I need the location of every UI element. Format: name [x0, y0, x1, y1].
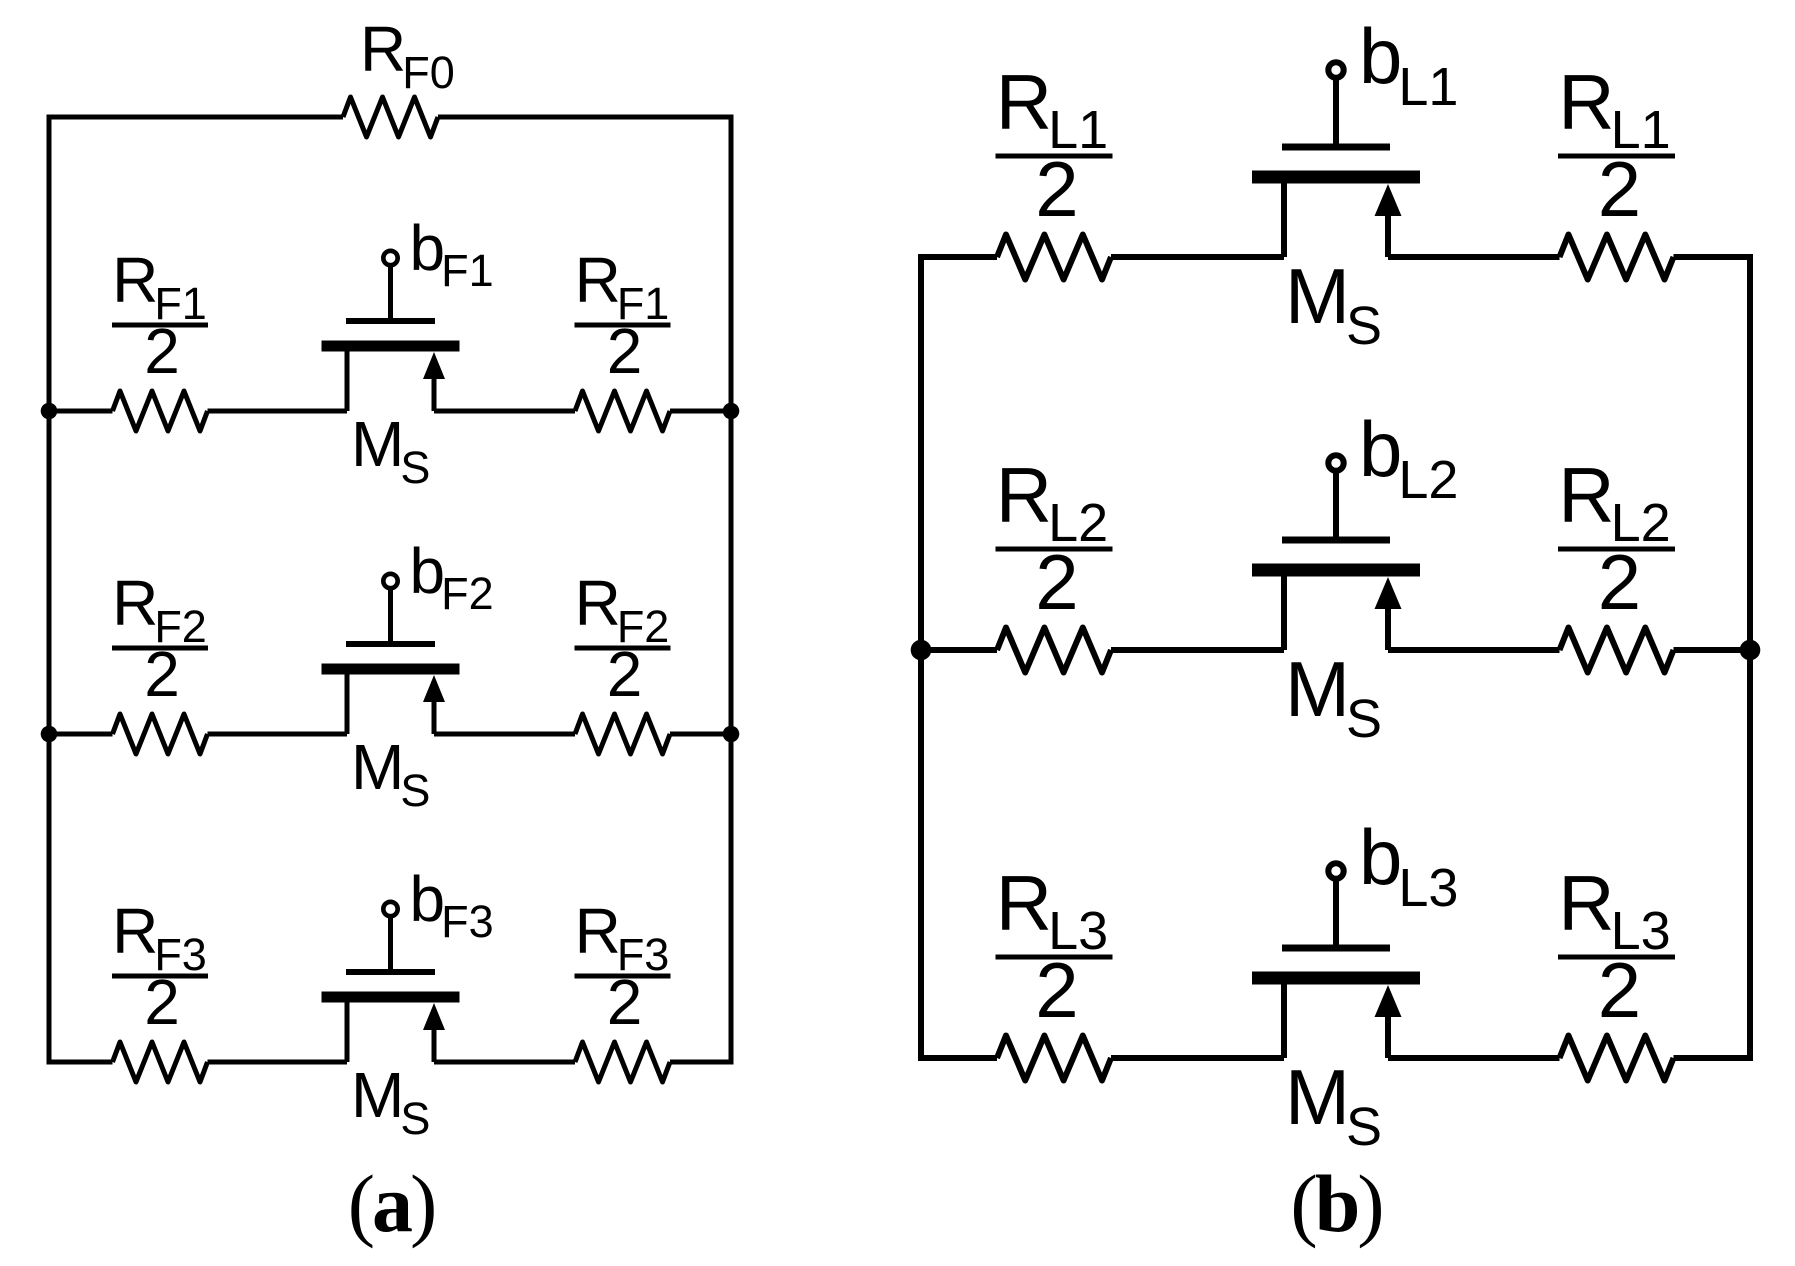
gate terminal b_L2 — [1328, 405, 1458, 540]
transistor M_S branch L1 — [1252, 147, 1420, 356]
resistor R_L1/2 right — [1558, 58, 1675, 280]
transistor M_S branch L3 — [1252, 948, 1420, 1157]
wire: branch L1 resistor-to-drain — [1111, 254, 1284, 260]
wire: branch L3 rail-to-resistor left — [921, 1055, 997, 1061]
wire: branch L1 rail-to-resistor left — [921, 254, 997, 260]
wire: branch F2 resistor-to-rail right — [670, 732, 731, 737]
resistor R_F0 — [343, 13, 455, 137]
wire: branch L3 resistor-to-drain — [1111, 1055, 1284, 1061]
transistor M_S branch F2 — [322, 644, 460, 816]
resistor R_F1/2 right — [575, 244, 671, 431]
transistor M_S branch F1 — [322, 321, 460, 493]
wire: branch F2 rail-to-resistor left — [49, 732, 113, 737]
wire: branch F3 source-to-resistor — [434, 1060, 575, 1065]
resistor R_L3/2 left — [996, 859, 1113, 1081]
node right junction F1 — [723, 403, 740, 420]
node left junction F2 — [41, 726, 58, 743]
transistor M_S branch F3 — [322, 972, 460, 1144]
wire: right rail (b) — [1747, 254, 1753, 1061]
wire: branch F1 rail-to-resistor left — [49, 409, 113, 414]
svg-text:2: 2 — [1598, 145, 1641, 233]
wire: branch L2 rail-to-resistor left — [921, 647, 997, 653]
wire: right rail (a) — [729, 115, 734, 1065]
node right junction F2 — [723, 726, 740, 743]
svg-text:2: 2 — [607, 966, 643, 1038]
wire: branch L1 source-to-resistor — [1388, 254, 1560, 260]
wire: branch F1 resistor-to-drain — [208, 409, 348, 414]
transistor M_S branch L2 — [1252, 540, 1420, 749]
resistor R_F1/2 left — [112, 244, 208, 431]
gate terminal b_L1 — [1328, 12, 1458, 147]
wire: branch F1 resistor-to-rail right — [670, 409, 731, 414]
svg-text:(b): (b) — [1290, 1158, 1381, 1249]
resistor R_F3/2 left — [112, 895, 208, 1082]
wire: branch F3 resistor-to-rail right — [670, 1060, 731, 1065]
node left junction F1 — [41, 403, 58, 420]
svg-text:2: 2 — [1035, 145, 1078, 233]
gate terminal b_L3 — [1328, 813, 1458, 948]
svg-text:(a): (a) — [348, 1158, 435, 1249]
wire: left rail (b) — [918, 254, 924, 1061]
svg-text:2: 2 — [1598, 538, 1641, 626]
wire: top rail right segment (a) — [438, 115, 731, 120]
svg-text:2: 2 — [1598, 946, 1641, 1034]
wire: branch L3 resistor-to-rail right — [1674, 1055, 1751, 1061]
wire: top rail left segment (a) — [49, 115, 343, 120]
node left junction L2 — [911, 640, 932, 661]
wire: left rail (a) — [47, 115, 52, 1065]
wire: branch F2 source-to-resistor — [434, 732, 575, 737]
wire: branch L2 resistor-to-drain — [1111, 647, 1284, 653]
svg-text:2: 2 — [144, 315, 180, 387]
resistor R_L3/2 right — [1558, 859, 1675, 1081]
svg-text:2: 2 — [144, 966, 180, 1038]
wire: branch F1 source-to-resistor — [434, 409, 575, 414]
svg-text:2: 2 — [144, 638, 180, 710]
gate terminal b_F2 — [383, 535, 493, 644]
resistor R_F3/2 right — [575, 895, 671, 1082]
resistor R_L1/2 left — [996, 58, 1113, 280]
gate terminal b_F1 — [383, 212, 493, 321]
wire: branch L1 resistor-to-rail right — [1674, 254, 1751, 260]
resistor R_F2/2 right — [575, 567, 671, 754]
node right junction L2 — [1740, 640, 1761, 661]
gate terminal b_F3 — [383, 863, 493, 972]
wire: branch F2 resistor-to-drain — [208, 732, 348, 737]
svg-text:2: 2 — [1035, 538, 1078, 626]
svg-text:2: 2 — [607, 315, 643, 387]
wire: branch L3 source-to-resistor — [1388, 1055, 1560, 1061]
resistor R_L2/2 left — [996, 451, 1113, 673]
wire: branch L2 resistor-to-rail right — [1674, 647, 1751, 653]
svg-text:2: 2 — [1035, 946, 1078, 1034]
wire: branch F3 rail-to-resistor left — [49, 1060, 113, 1065]
svg-text:2: 2 — [607, 638, 643, 710]
resistor R_L2/2 right — [1558, 451, 1675, 673]
wire: branch L2 source-to-resistor — [1388, 647, 1560, 653]
resistor R_F2/2 left — [112, 567, 208, 754]
wire: branch F3 resistor-to-drain — [208, 1060, 348, 1065]
